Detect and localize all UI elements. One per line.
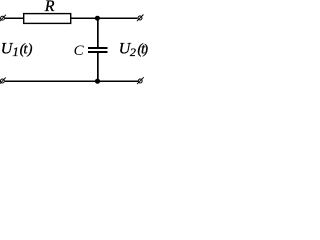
capacitor C (88, 48, 108, 52)
wire: capacitor to bottom junction (97, 53, 99, 82)
node: bottom junction (95, 79, 100, 84)
resistor R (24, 14, 71, 24)
svg-text:): ) (27, 42, 33, 58)
label U2(t) : output voltage (119, 41, 149, 60)
wire: bottom rail (5, 80, 138, 82)
svg-text:1: 1 (12, 44, 19, 59)
label U1(t) : input voltage (1, 41, 33, 60)
terminal: port-1 bottom (0, 77, 6, 84)
terminal: port-1 top (input) (0, 15, 6, 22)
svg-text:R: R (44, 0, 55, 15)
terminal: port-2 top (output) (137, 15, 144, 22)
wire: top junction down to capacitor (97, 18, 99, 47)
terminal: port-2 bottom (137, 77, 144, 84)
svg-text:): ) (142, 43, 148, 58)
svg-text:2: 2 (130, 45, 136, 59)
wire: resistor to right terminal (71, 17, 138, 19)
svg-text:C: C (74, 43, 85, 59)
wire: left terminal to resistor (5, 17, 24, 19)
node: top junction (95, 16, 100, 21)
